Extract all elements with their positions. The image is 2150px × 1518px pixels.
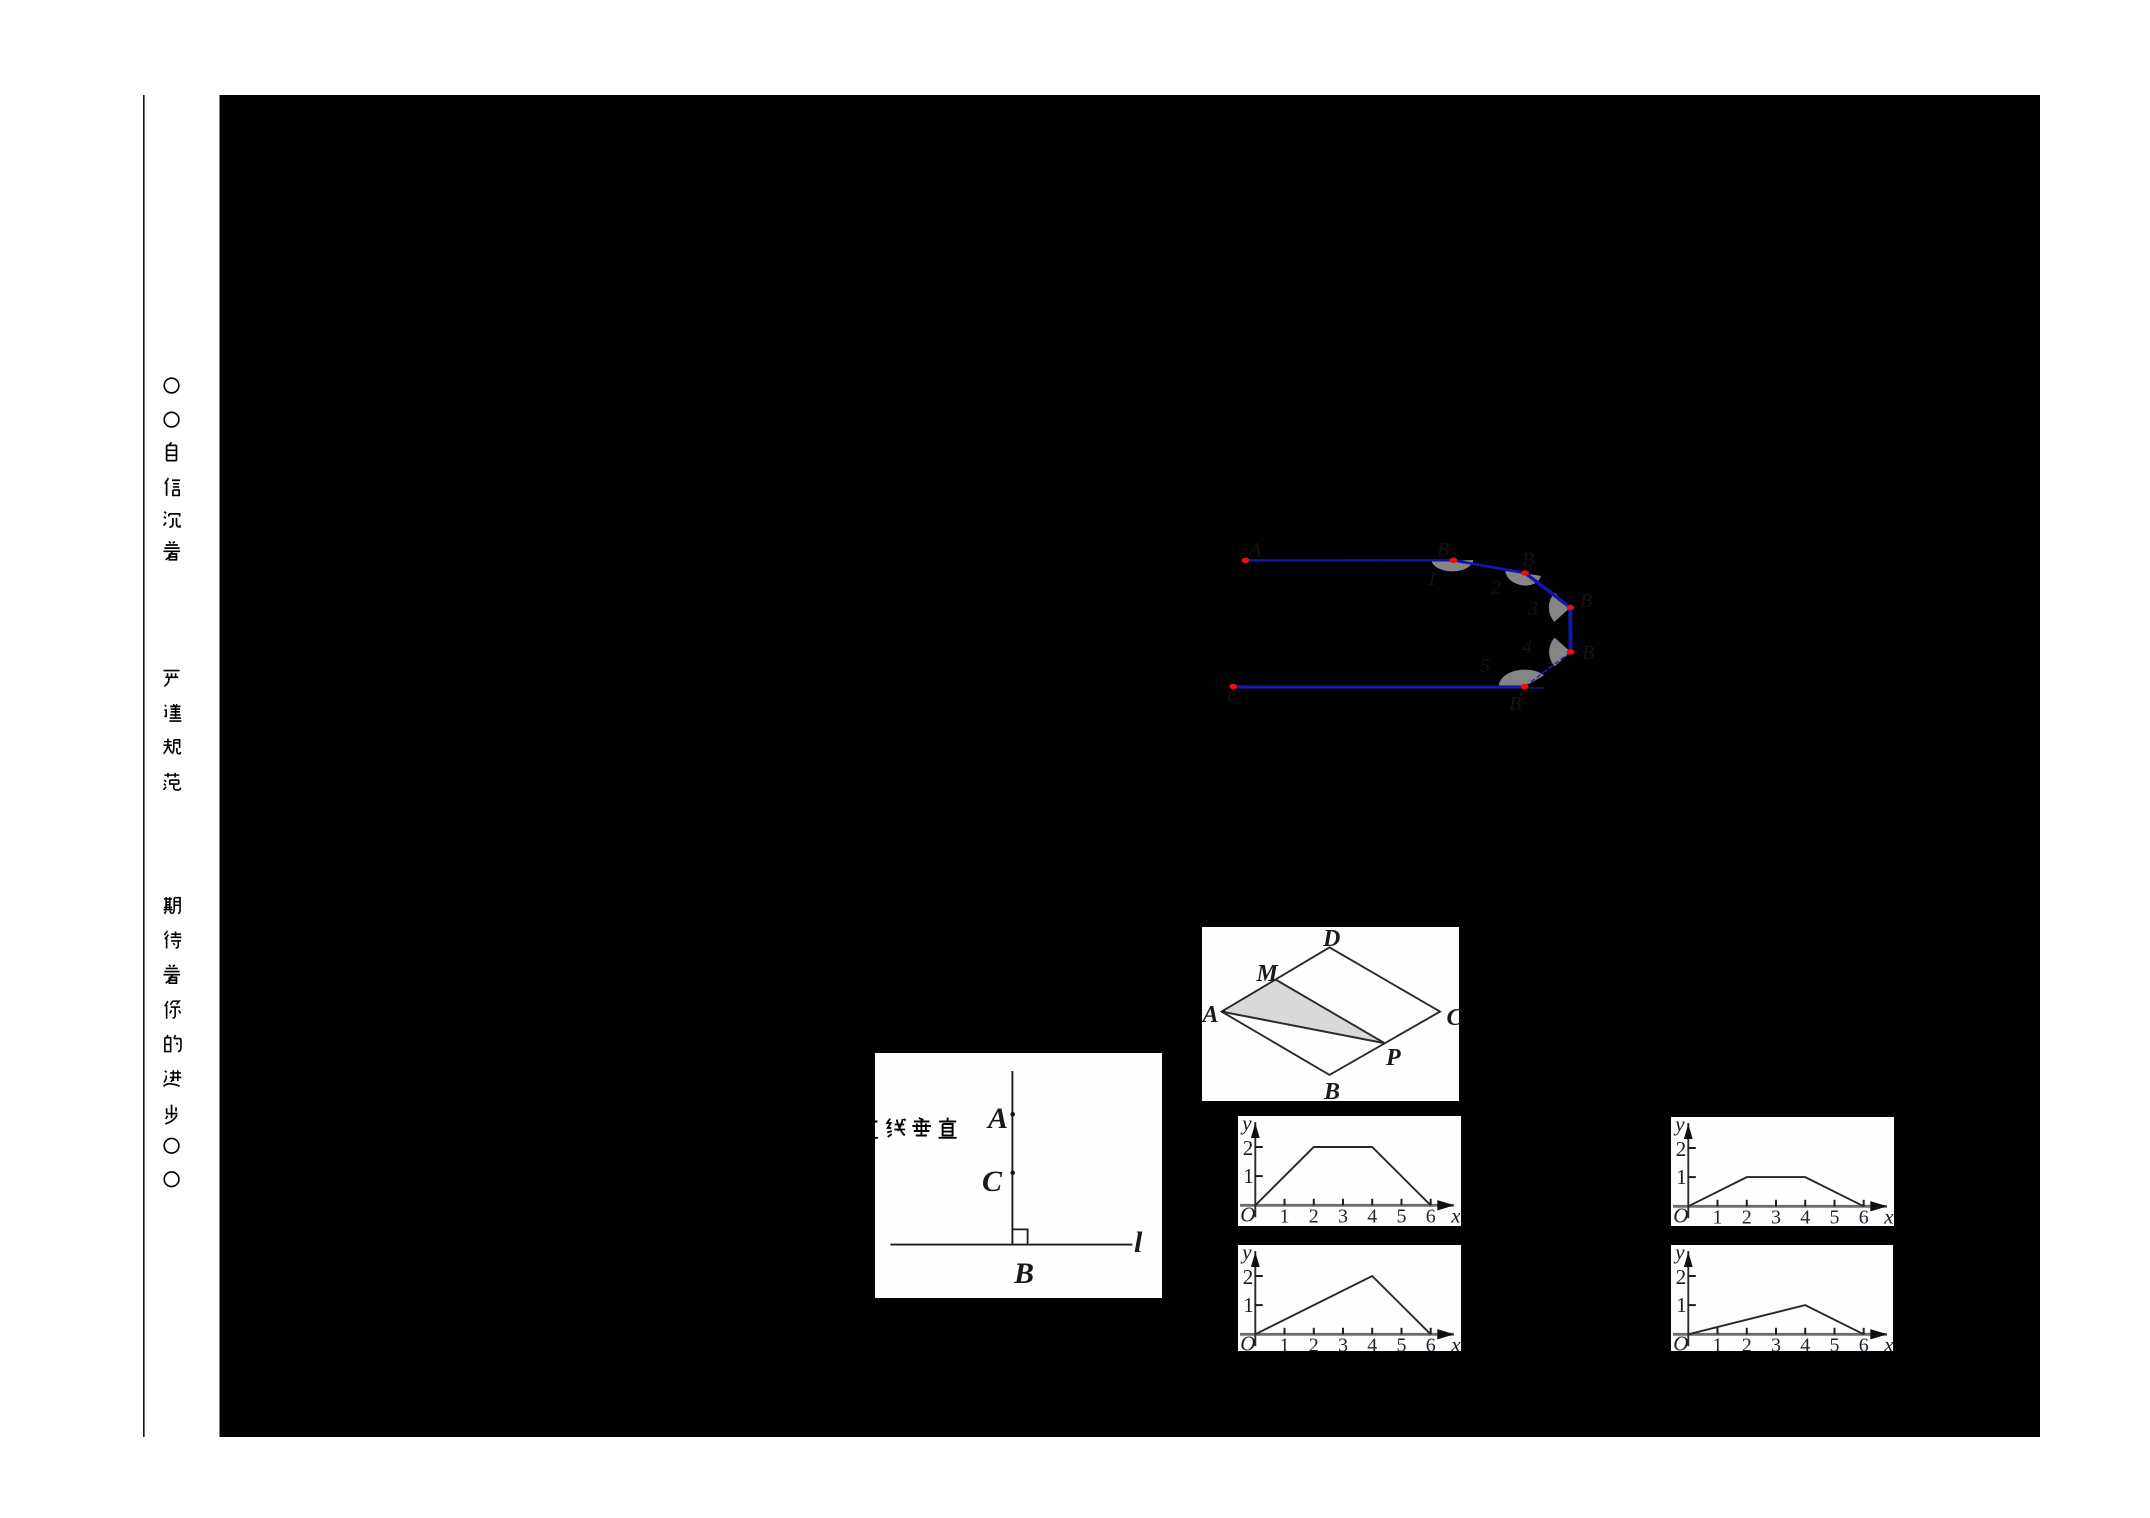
angle sector at vertex B3 <box>1549 593 1571 622</box>
white graph box C: piecewise linear function <box>1238 1245 1461 1351</box>
function curve <box>1255 1276 1430 1334</box>
axis ticks <box>1717 1200 1719 1207</box>
angle sector at vertex B1 <box>1431 560 1473 571</box>
svg-text:1: 1 <box>1676 1293 1687 1317</box>
svg-text:C: C <box>1447 1005 1464 1031</box>
svg-text:O: O <box>1240 1202 1255 1226</box>
point A <box>1010 1112 1015 1117</box>
svg-text:P: P <box>1385 1045 1401 1071</box>
point C <box>1010 1170 1015 1175</box>
red vertex dots <box>1242 558 1250 564</box>
white figure box: point A,C on line perpendicular to l at B <box>875 1053 1162 1298</box>
svg-text:2: 2 <box>1491 577 1501 599</box>
right angle mark <box>1012 1229 1027 1244</box>
svg-text:2: 2 <box>1676 1137 1687 1161</box>
angle sector at vertex B5 <box>1499 670 1544 687</box>
segment A-P <box>1222 1012 1385 1044</box>
axis ticks <box>1717 1328 1719 1335</box>
svg-text:A: A <box>1247 539 1262 561</box>
x axis <box>1673 1205 1887 1208</box>
left margin rule <box>143 95 145 1437</box>
y axis <box>1254 1122 1256 1217</box>
axis ticks <box>1284 1328 1286 1335</box>
svg-text:C: C <box>1227 686 1241 708</box>
segment B2-B3 <box>1525 573 1570 608</box>
function curve <box>1688 1177 1863 1206</box>
svg-text:2: 2 <box>1742 1206 1752 1228</box>
y axis <box>1254 1251 1256 1346</box>
horizontal line l <box>890 1244 1132 1246</box>
svg-text:2: 2 <box>1676 1265 1687 1289</box>
top horizontal segment <box>1246 559 1454 562</box>
svg-text:M: M <box>1256 961 1280 987</box>
white graph box D: piecewise linear function <box>1671 1245 1893 1351</box>
svg-text:3: 3 <box>1771 1206 1781 1228</box>
svg-text:A: A <box>1201 1002 1219 1028</box>
svg-text:O: O <box>1673 1203 1688 1227</box>
y axis <box>1687 1123 1689 1218</box>
svg-text:3: 3 <box>1527 598 1538 620</box>
shaded triangle AMP <box>1222 980 1385 1044</box>
svg-text:1: 1 <box>1243 1293 1254 1317</box>
x axis <box>1240 1204 1454 1207</box>
svg-text:l: l <box>1134 1226 1143 1259</box>
svg-text:4: 4 <box>1367 1205 1377 1227</box>
svg-text:4: 4 <box>1522 636 1532 658</box>
segment M-P <box>1276 980 1385 1044</box>
svg-text:5: 5 <box>1830 1206 1840 1228</box>
svg-text:2: 2 <box>1243 1136 1254 1160</box>
svg-text:1: 1 <box>1427 568 1437 590</box>
svg-text:5: 5 <box>1397 1205 1407 1227</box>
svg-text:B: B <box>1582 642 1594 664</box>
segment B1-B2 <box>1453 560 1525 573</box>
margin vertical slogan text column <box>164 378 179 393</box>
blue geometry figure: open polygon with marked angles <box>1227 539 1594 715</box>
svg-text:6: 6 <box>1426 1205 1436 1227</box>
function curve <box>1688 1305 1863 1334</box>
svg-text:1: 1 <box>1713 1206 1723 1228</box>
segment B4-B5 thin <box>1525 652 1571 687</box>
svg-text:2: 2 <box>1309 1205 1319 1227</box>
white figure box: rhombus ABCD with triangle AMP <box>1202 927 1459 1101</box>
x axis <box>1240 1333 1454 1336</box>
axis ticks <box>1284 1199 1286 1206</box>
rhombus ABCD <box>1222 947 1440 1075</box>
svg-text:1: 1 <box>1676 1165 1687 1189</box>
svg-text:C: C <box>982 1165 1003 1198</box>
angle sector at vertex B2 <box>1503 568 1541 588</box>
svg-text:5: 5 <box>1480 655 1490 677</box>
y axis <box>1687 1251 1689 1346</box>
x axis <box>1673 1333 1887 1336</box>
svg-text:B: B <box>1522 549 1534 571</box>
svg-text:6: 6 <box>1859 1206 1869 1228</box>
function curve <box>1255 1147 1430 1205</box>
angle sector at vertex B4 <box>1549 638 1571 667</box>
clipped caption 直线垂直 <box>860 1118 878 1138</box>
white graph box A: piecewise linear function <box>1238 1116 1461 1226</box>
white graph box B: piecewise linear function <box>1671 1117 1894 1226</box>
vertical line AB <box>1011 1071 1013 1245</box>
svg-text:4: 4 <box>1800 1206 1810 1228</box>
svg-text:3: 3 <box>1338 1205 1348 1227</box>
svg-text:1: 1 <box>1243 1164 1254 1188</box>
svg-text:B: B <box>1437 539 1449 561</box>
scanned black page body <box>220 95 2041 1437</box>
svg-text:2: 2 <box>1243 1265 1254 1289</box>
bottom horizontal segment <box>1233 685 1525 687</box>
svg-text:B: B <box>1013 1257 1034 1290</box>
svg-text:B: B <box>1580 590 1592 612</box>
svg-text:D: D <box>1322 926 1340 952</box>
svg-text:B: B <box>1323 1079 1340 1105</box>
svg-text:A: A <box>986 1102 1008 1135</box>
svg-text:x: x <box>1450 1203 1461 1227</box>
svg-text:x: x <box>1883 1204 1894 1228</box>
svg-text:1: 1 <box>1280 1205 1290 1227</box>
segment B3-B4 vertical <box>1568 608 1572 653</box>
svg-text:B: B <box>1509 693 1521 715</box>
